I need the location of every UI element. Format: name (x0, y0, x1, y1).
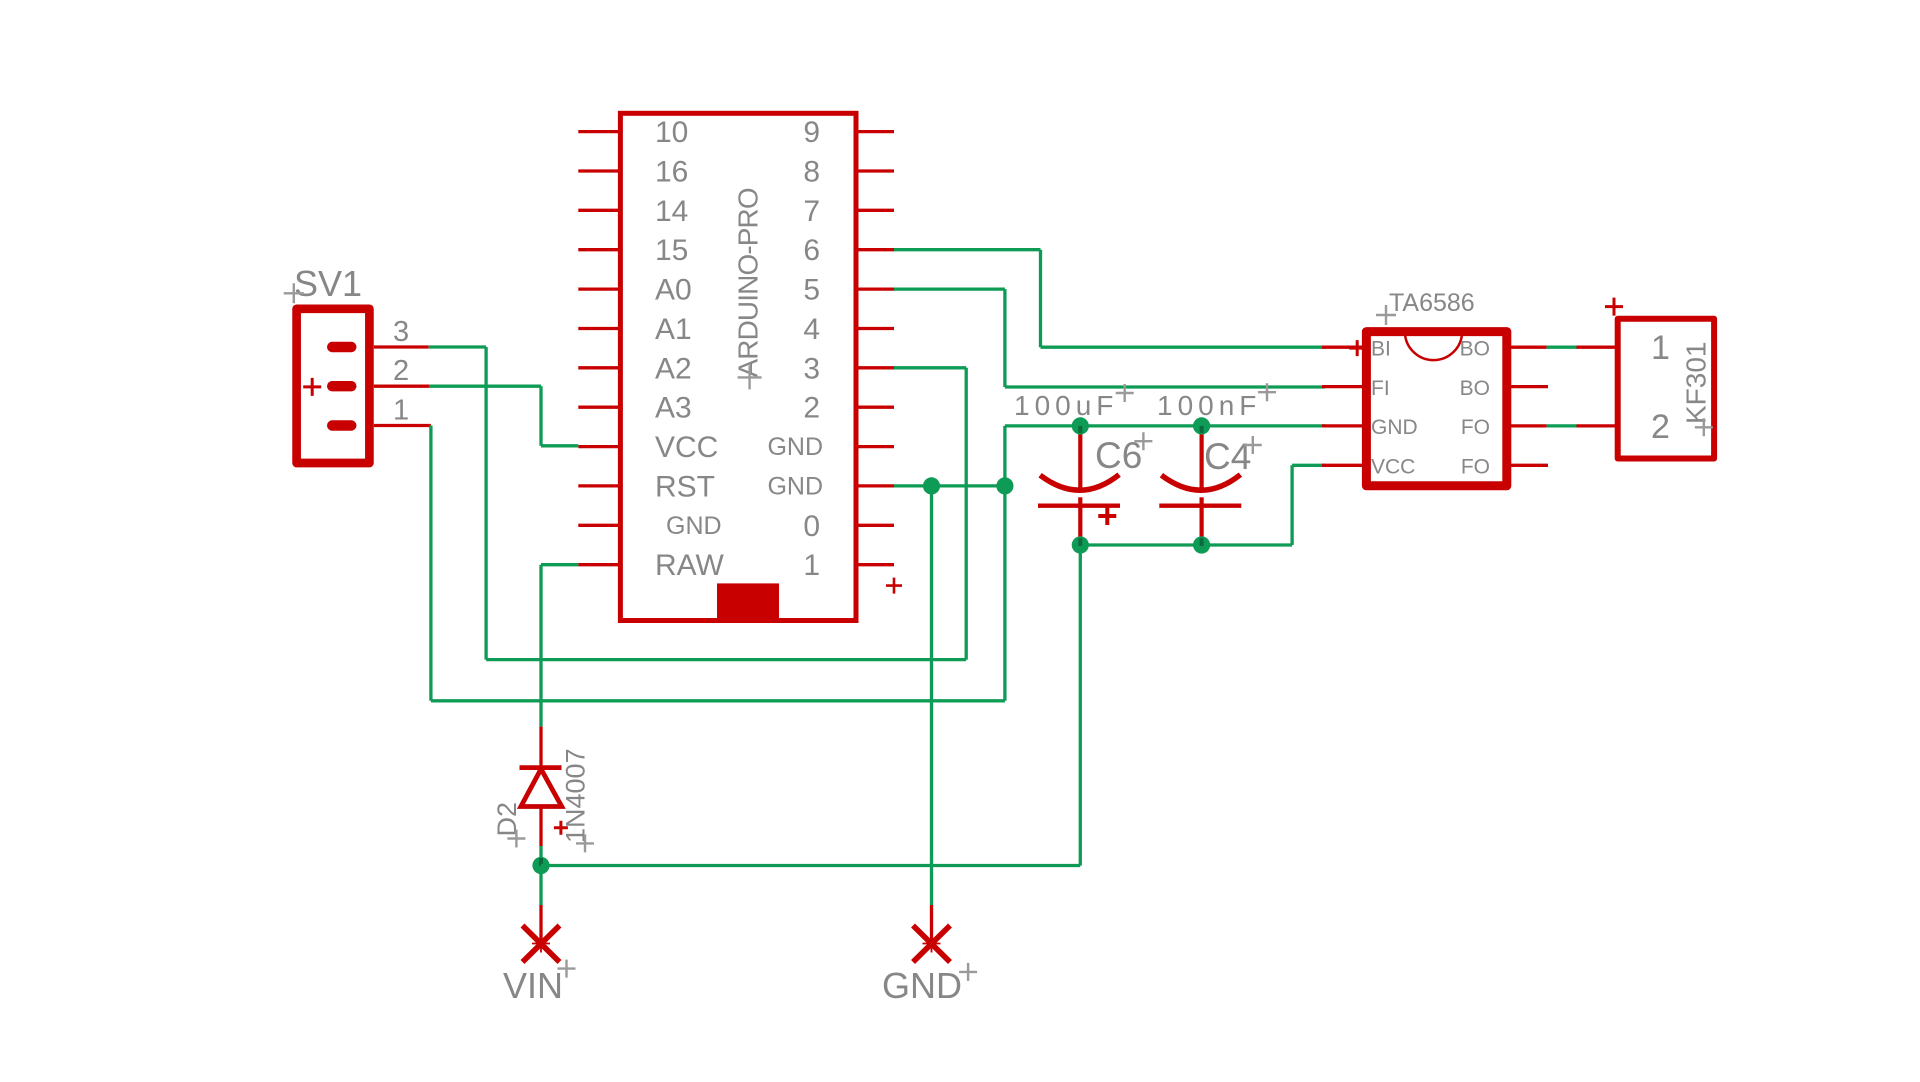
U1 name origin cross (738, 365, 762, 389)
svg-text:BO: BO (1460, 338, 1490, 361)
U2 pin BI stub (1322, 346, 1362, 349)
wire RAW vertical to diode (539, 565, 542, 727)
svg-text:TA6586: TA6586 (1389, 289, 1475, 317)
U1 pin 8 (856, 169, 894, 172)
U2 pin FO1 stub (1510, 424, 1547, 427)
KF301 pin 2 stub (1577, 424, 1618, 427)
capacitor C4 (1159, 426, 1241, 539)
wire to GND supply symbol (930, 486, 933, 905)
svg-text:C4: C4 (1204, 436, 1251, 477)
svg-text:GND: GND (666, 512, 722, 540)
svg-text:FO: FO (1461, 456, 1490, 479)
svg-text:10: 10 (655, 116, 688, 149)
wire SV1.2 horizontal (429, 385, 541, 388)
U1 pin 4 (856, 327, 894, 330)
junction C4 top (1193, 417, 1210, 434)
svg-text:BO: BO (1460, 377, 1490, 400)
svg-text:1N4007: 1N4007 (561, 748, 591, 843)
U1 pin 3 (856, 366, 894, 369)
wire U1 RAW horizontal (541, 563, 578, 566)
U1 pin 5 (856, 287, 894, 290)
wire SV1.3 bottom horizontal (486, 658, 966, 661)
U2 pin FO2 stub (1510, 464, 1548, 467)
U1 pin GND right 1 (856, 445, 894, 448)
U2 origin cross (1349, 340, 1365, 356)
svg-text:1: 1 (393, 395, 409, 427)
wire U1 GND2 horizontal (894, 484, 1005, 487)
U1 pin GND left (578, 524, 620, 527)
connector X1 KF301 body (1618, 319, 1714, 459)
svg-text:7: 7 (803, 195, 820, 228)
U1 pin 10 (578, 130, 620, 133)
svg-text:5: 5 (803, 274, 820, 307)
IC U2 TA6586 body (1366, 332, 1506, 486)
C6 polarity mark (1098, 507, 1116, 525)
svg-text:15: 15 (655, 234, 688, 267)
U1 pin 0 (856, 524, 894, 527)
100nF origin cross (1258, 383, 1276, 401)
svg-text:GND: GND (767, 433, 823, 461)
U1 bottom connector mark (717, 583, 779, 623)
junction C4 bottom (1193, 536, 1210, 553)
wire U1 pin5 horizontal (894, 287, 1005, 290)
U2 pin FI stub (1322, 385, 1362, 388)
wire VIN node riser to C6 (1079, 545, 1082, 866)
U1 pin A1 (578, 327, 620, 330)
svg-text:ARDUINO-PRO: ARDUINO-PRO (733, 188, 764, 377)
svg-text:BI: BI (1371, 338, 1391, 361)
U1 pin A3 (578, 406, 620, 409)
svg-text:100nF: 100nF (1157, 390, 1261, 421)
svg-text:SV1: SV1 (294, 263, 362, 304)
wire SV1.1 vertical (GND net) (429, 426, 432, 701)
wire to TA6586 FI (1005, 385, 1325, 388)
connector SV1 (297, 309, 370, 463)
U1 pin RST (578, 484, 620, 487)
U1 pin 9 (856, 130, 894, 133)
svg-text:3: 3 (803, 352, 820, 385)
svg-text:2: 2 (393, 355, 409, 387)
wire SV1.3 to U1.3 horizontal (429, 345, 486, 348)
wire to TA6586 BI (1041, 346, 1326, 349)
KF301 pin 1 stub (1577, 346, 1618, 349)
capacitor C6 (1038, 426, 1120, 539)
wire to TA6586 VCC pin (1292, 464, 1325, 467)
U1 pin 2 (856, 406, 894, 409)
svg-text:3: 3 (393, 316, 409, 348)
wire pin6 drop (1039, 250, 1042, 348)
U2 pin BO2 stub (1510, 385, 1548, 388)
wire GND rail to TA6586 (1005, 424, 1325, 427)
U1 pin 6 (856, 248, 894, 251)
U1 pin 1 (856, 563, 894, 566)
svg-text:0: 0 (803, 510, 820, 543)
SV1 pin 2 stub (374, 385, 429, 388)
wire U1 pin3 horizontal (894, 366, 966, 369)
svg-text:A0: A0 (655, 274, 692, 307)
svg-text:A3: A3 (655, 392, 692, 425)
svg-text:RST: RST (655, 470, 715, 503)
wire VIN node horizontal (541, 864, 1080, 867)
svg-text:VCC: VCC (655, 431, 718, 464)
wire SV1.2 jog vertical (539, 386, 542, 446)
U1 origin cross (886, 578, 902, 594)
wire riser to TA6586 VCC (1290, 465, 1293, 545)
wire to U1 VCC (541, 444, 578, 447)
wire GND net vertical riser (1003, 426, 1006, 701)
svg-text:A2: A2 (655, 352, 692, 385)
svg-text:2: 2 (803, 392, 820, 425)
1N4007 origin cross (576, 834, 594, 852)
wire FO1 to KF301 pin2 (1547, 424, 1577, 427)
svg-text:8: 8 (803, 156, 820, 189)
svg-text:4: 4 (803, 313, 820, 346)
svg-text:100uF: 100uF (1014, 390, 1118, 421)
GND label origin cross (959, 963, 977, 981)
U1 pin VCC (578, 445, 620, 448)
wire up to U1 pin3 (965, 368, 968, 660)
svg-text:VIN: VIN (503, 965, 563, 1006)
svg-text:VCC: VCC (1371, 456, 1415, 479)
wire GND net bottom horizontal (431, 699, 1005, 702)
svg-text:6: 6 (803, 234, 820, 267)
wire SV1.3 vertical (484, 347, 487, 660)
U1 pin A0 (578, 287, 620, 290)
TA6586 origin cross (1376, 305, 1396, 325)
pin of VIN supply (539, 905, 542, 944)
U2 pin VCC stub (1322, 464, 1362, 467)
U1 pin A2 (578, 366, 620, 369)
svg-text:RAW: RAW (655, 549, 725, 582)
svg-text:1: 1 (1651, 329, 1670, 367)
junction GND supply takeoff (923, 477, 940, 494)
junction VIN node (532, 857, 549, 874)
junction C6 bottom (1072, 536, 1089, 553)
C4 origin cross (1244, 436, 1262, 454)
U1 pin RAW (578, 563, 620, 566)
svg-text:1: 1 (803, 549, 820, 582)
svg-text:KF301: KF301 (1681, 342, 1712, 425)
wire pin5 drop (1003, 289, 1006, 387)
U1 pin 15 (578, 248, 620, 251)
svg-text:A1: A1 (655, 313, 692, 346)
svg-text:GND: GND (882, 965, 962, 1006)
svg-text:FI: FI (1371, 377, 1390, 400)
pin of GND supply (930, 905, 933, 944)
U2 pin GND stub (1322, 424, 1362, 427)
C6 origin cross (1134, 432, 1152, 450)
IC U1 ARDUINO-PRO body (620, 113, 856, 620)
wire VIN rail under caps (1080, 543, 1292, 546)
U2 pin BO1 stub (1510, 346, 1547, 349)
VIN label origin cross (558, 960, 576, 978)
svg-text:GND: GND (1371, 416, 1418, 439)
U1 pin GND right 2 (856, 484, 894, 487)
U2 notch (1405, 332, 1462, 361)
svg-text:9: 9 (803, 116, 820, 149)
SV1 polarity mark (303, 378, 321, 396)
KF301 origin cross (1695, 418, 1713, 436)
junction GND2/riser (996, 477, 1013, 494)
SV1 pin 1 stub (374, 424, 431, 427)
wire diode to VIN junction (539, 846, 542, 905)
svg-text:16: 16 (655, 156, 688, 189)
KF301 polarity mark (1605, 298, 1623, 316)
U1 pin 16 (578, 169, 620, 172)
D2 polarity mark (554, 821, 568, 835)
diode D2 (520, 727, 562, 846)
svg-text:FO: FO (1461, 416, 1490, 439)
D2 name origin cross (507, 830, 525, 848)
wire BO1 to KF301 pin1 (1547, 346, 1577, 349)
svg-text:14: 14 (655, 195, 688, 228)
supply symbol GND (913, 926, 950, 963)
U1 pin 7 (856, 209, 894, 212)
supply symbol VIN (523, 926, 560, 963)
junction C6 top (1072, 417, 1089, 434)
U1 pin 14 (578, 209, 620, 212)
SV1 pin 3 stub (374, 345, 429, 348)
svg-text:2: 2 (1651, 408, 1670, 446)
SV1 origin cross (284, 283, 304, 303)
wire U1 pin6 horizontal (894, 248, 1041, 251)
100uF origin cross (1116, 384, 1134, 402)
svg-text:GND: GND (767, 473, 823, 501)
